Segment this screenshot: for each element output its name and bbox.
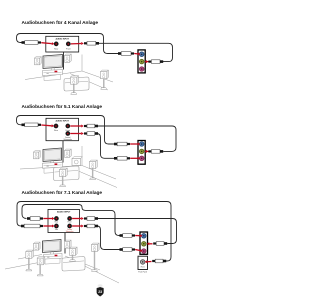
arrow out of Front jack, section 1: [71, 42, 84, 45]
floor line left, section 3: [5, 262, 44, 270]
svg-text:23: 23: [98, 290, 102, 294]
label Rear, section 3: [55, 221, 59, 224]
jack Rear (console), section 3: [54, 216, 59, 221]
label Front Panel, section 3: [141, 265, 145, 268]
wire: center/sub cable to pink plug, section 2: [97, 134, 114, 159]
jack Mic pink, section 1: [139, 67, 144, 72]
plug P1 (into Rear jack), section 1: [22, 41, 42, 45]
floor line right, section 3: [77, 262, 120, 283]
label Center/Subwoofer, section 2: [64, 136, 73, 141]
cable console to receiver, section 2: [62, 141, 64, 163]
floor line mid, section 2: [76, 170, 117, 188]
TV, section 1: [43, 55, 63, 72]
label Rear, section 2: [54, 129, 58, 132]
jack Line-In blue, section 1: [139, 52, 144, 57]
jack Front (console), section 3: [67, 216, 72, 221]
jack Mic pink, section 2: [139, 156, 144, 161]
floor line mid, section 1: [70, 74, 108, 91]
plug P6 (from Front jack), section 2: [84, 124, 98, 128]
front-right wall speaker, section 2: [65, 149, 72, 157]
svg-text:Rear: Rear: [54, 47, 58, 50]
arrow out of Front jack, section 3: [72, 217, 84, 220]
plug P13 (from Front jack), section 3: [84, 217, 98, 221]
jack Front (console), section 1: [66, 42, 71, 47]
subwoofer, section 2: [72, 157, 83, 166]
jack Line-In blue, section 3: [142, 234, 147, 239]
console box, section 2: [46, 118, 79, 140]
wire: rear loop (left plug over top to blue-jack plug), section 2: [17, 116, 115, 145]
arrow into Side jack, section 3: [43, 225, 54, 228]
label Front, section 3: [68, 221, 72, 224]
TV, section 3: [43, 240, 62, 256]
floor line mid, section 3: [65, 256, 100, 270]
svg-text:AUDIO INPUT: AUDIO INPUT: [57, 211, 71, 214]
emblem glow above shield: [98, 284, 103, 287]
front-left wall speaker, section 3: [34, 242, 41, 250]
jack Line-Out green, section 3: [142, 242, 147, 247]
wire: front-out cable (right plug to green-jack plug), section 1: [99, 43, 173, 61]
side-left pole speaker, section 3: [26, 250, 34, 271]
wire: rear loop (top-left plug over top to blue plug), section 3: [22, 205, 120, 236]
arrow into Rear jack, section 3: [43, 217, 54, 220]
page number shield: [97, 287, 104, 296]
rear-left pole speaker, section 3: [37, 257, 45, 276]
plug P16 (into green jack), section 3: [153, 242, 167, 246]
jack Line-Out green, section 1: [139, 59, 144, 64]
floor line left2, section 3: [18, 255, 42, 260]
svg-text:Rear: Rear: [54, 129, 58, 132]
wire: front cable to green plug, section 3: [98, 219, 177, 244]
section 2 title: [22, 104, 103, 110]
jack Rear (console), section 2: [54, 124, 59, 129]
section 3 title: [22, 190, 103, 196]
front-right wall speaker, section 3: [65, 240, 72, 248]
wire: center/sub cable to pink plug, section 3: [98, 226, 120, 250]
arrow into Rear jack, section 1: [41, 42, 54, 45]
arrow into pink jack, section 3: [135, 249, 142, 252]
arrow into green jack, section 2: [144, 150, 148, 153]
svg-text:Subwoofer: Subwoofer: [66, 231, 74, 233]
plug P11 (into Rear jack), section 3: [27, 217, 43, 221]
plug P8 (into blue jack), section 2: [114, 142, 130, 146]
svg-text:Audiobuchsen für 5.1 Kanal Anl: Audiobuchsen für 5.1 Kanal Anlage: [22, 104, 103, 110]
label AUDIO INPUT, section 1: [55, 37, 69, 40]
svg-text:Front: Front: [66, 47, 71, 50]
plug P4 (into Line-Out green), section 1: [148, 60, 163, 64]
label Center/Subwoofer, section 3: [66, 228, 74, 233]
couch, section 3: [62, 257, 85, 272]
TV, section 2: [43, 148, 62, 164]
receiver, section 3: [44, 254, 63, 265]
couch, section 1: [64, 77, 89, 91]
plug P15 (into blue jack), section 3: [120, 234, 136, 238]
plug P10 (into pink jack), section 2: [114, 157, 130, 161]
back panel jack strip, section 3: [140, 232, 148, 254]
floor line left, section 2: [20, 166, 82, 170]
svg-text:Subwoofer: Subwoofer: [64, 139, 73, 141]
rear-right pole speaker, section 2: [90, 160, 98, 180]
plug P9 (into green jack), section 2: [148, 150, 163, 154]
cable console to receiver, section 3: [64, 233, 66, 254]
svg-text:Rear: Rear: [55, 221, 59, 224]
receiver, section 2: [43, 162, 63, 173]
label AUDIO INPUT, section 3: [57, 211, 71, 214]
plug P2 (from Front jack), section 1: [84, 42, 99, 46]
svg-text:AUDIO INPUT: AUDIO INPUT: [55, 37, 69, 40]
arrow into green jack, section 1: [144, 60, 148, 63]
svg-text:Front: Front: [66, 129, 71, 132]
cable console to receiver, section 1: [63, 52, 65, 70]
arrow into front panel jack, section 3: [145, 260, 152, 263]
svg-text:Audiobuchsen für 4 Kanal Anlag: Audiobuchsen für 4 Kanal Anlage: [22, 20, 99, 26]
plug P12 (into Side jack), section 3: [21, 224, 43, 228]
svg-text:Front: Front: [141, 265, 145, 268]
jack Front (console), section 2: [65, 124, 70, 129]
jack Rear (console), section 1: [54, 42, 59, 47]
jack Center/Sub (console), section 3: [67, 224, 72, 229]
jack Side (console), section 3: [54, 224, 59, 229]
arrow into blue jack, section 1: [134, 52, 140, 55]
front-left wall speaker, section 2: [34, 151, 41, 159]
label Front, section 1: [66, 47, 71, 50]
front panel jack, section 3: [140, 260, 145, 265]
label Front Panel 2, section 3: [138, 270, 147, 273]
svg-text:Front Panel: Front Panel: [138, 270, 147, 273]
floor line right, section 1: [82, 71, 113, 82]
console box, section 3: [48, 210, 80, 233]
wire: side loop (bottom-left plug over top to front-panel plug), section 3: [17, 202, 171, 262]
arrow into pink jack, section 2: [130, 157, 140, 160]
svg-text:Front: Front: [68, 221, 72, 224]
couch, section 2: [54, 166, 80, 181]
floor line left, section 1: [25, 71, 82, 80]
side-right pole speaker, section 3: [70, 247, 78, 261]
arrow out of Center/Sub jack, section 3: [72, 225, 84, 228]
jack Mic pink, section 3: [142, 249, 147, 254]
arrow into blue jack, section 3: [135, 234, 142, 237]
section 1 title: [22, 20, 99, 26]
floor line right, section 2: [82, 166, 116, 180]
arrow out of Center/Sub jack, section 2: [70, 132, 84, 135]
room wall corner, section 1: [81, 55, 83, 72]
svg-text:Audiobuchsen für 7.1 Kanal Anl: Audiobuchsen für 7.1 Kanal Anlage: [22, 190, 103, 196]
wire: rear loop (left plug over top to blue-jack plug), section 1: [17, 34, 119, 54]
console box (speaker system input), section 1: [46, 36, 79, 52]
label AUDIO INPUT, section 2: [55, 119, 69, 122]
label Front, section 2: [66, 129, 71, 132]
arrow into blue jack, section 2: [130, 143, 140, 146]
rear-left pole speaker, section 2: [60, 168, 68, 187]
front-right wall speaker, section 1: [65, 54, 72, 62]
plug P14 (from Center/Sub jack), section 3: [84, 224, 98, 228]
plug P3 (into Line-In blue), section 1: [118, 52, 134, 56]
wire: front-out cable to green plug, section 2: [97, 126, 176, 151]
front-left wall speaker, section 1: [35, 57, 42, 65]
arrow out of Front jack, section 2: [70, 125, 84, 128]
back panel jack strip, section 1: [138, 50, 145, 73]
plug P5 (into Rear jack), section 2: [22, 123, 42, 127]
label Side, section 3: [55, 229, 58, 231]
back panel jack strip, section 2: [138, 141, 145, 165]
jack Line-In blue, section 2: [139, 142, 144, 147]
receiver, section 1: [43, 70, 63, 81]
rear-right pole speaker, section 1: [101, 70, 109, 89]
arrow into green jack, section 3: [147, 242, 153, 245]
jack Center/Sub (console), section 2: [65, 131, 70, 136]
svg-text:AUDIO INPUT: AUDIO INPUT: [55, 119, 69, 122]
arrow into Rear jack, section 2: [41, 124, 54, 127]
label Rear, section 1: [54, 47, 58, 50]
room wall corner, section 2: [81, 146, 83, 166]
svg-text:Side: Side: [55, 229, 58, 231]
rear-left pole speaker, section 1: [71, 76, 79, 95]
plug P18 (into front panel jack), section 3: [152, 259, 166, 263]
plug P17 (into pink jack), section 3: [120, 248, 136, 252]
plug P7 (from Center/Sub jack), section 2: [84, 132, 98, 136]
front panel jack box, section 3: [138, 256, 148, 269]
jack Line-Out green, section 2: [139, 149, 144, 154]
rear-right pole speaker, section 3: [92, 243, 100, 271]
